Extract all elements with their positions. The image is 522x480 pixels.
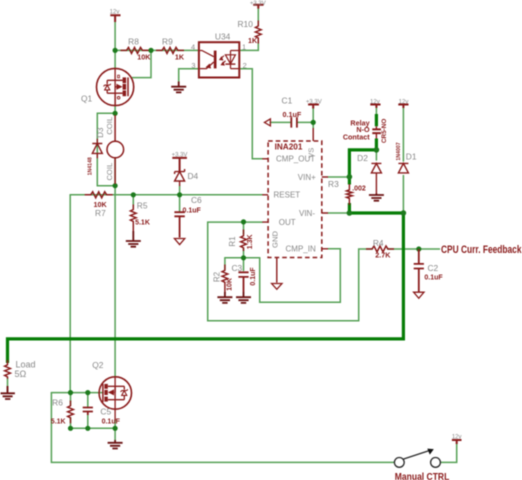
svg-text:COIL: COIL	[105, 163, 114, 181]
svg-text:12v: 12v	[370, 99, 380, 105]
svg-text:OUT: OUT	[279, 218, 296, 227]
svg-text:5.1K: 5.1K	[51, 419, 66, 426]
svg-text:R7: R7	[95, 208, 106, 218]
svg-text:12v: 12v	[110, 10, 120, 16]
svg-text:CR5-NO: CR5-NO	[381, 119, 388, 144]
svg-text:1K: 1K	[248, 36, 258, 45]
svg-text:R3: R3	[328, 179, 339, 189]
svg-text:Q1: Q1	[81, 93, 93, 103]
svg-text:12v: 12v	[452, 435, 462, 441]
svg-text:1K: 1K	[175, 52, 185, 61]
svg-text:0.1uF: 0.1uF	[183, 207, 202, 214]
svg-text:1N4007: 1N4007	[396, 142, 402, 160]
svg-text:10K: 10K	[137, 52, 151, 61]
svg-text:4: 4	[191, 43, 195, 52]
svg-text:R9: R9	[162, 37, 173, 47]
svg-text:5.1K: 5.1K	[135, 219, 150, 226]
svg-text:R1: R1	[228, 236, 237, 247]
svg-text:D3: D3	[96, 127, 105, 138]
svg-text:U34: U34	[215, 32, 231, 42]
svg-text:RESET: RESET	[274, 190, 301, 199]
svg-text:D1: D1	[406, 152, 417, 162]
svg-text:C2: C2	[428, 263, 439, 273]
svg-text:+3.3V: +3.3V	[250, 1, 266, 7]
svg-text:C3: C3	[232, 263, 243, 273]
svg-text:CPU Curr. Feedback: CPU Curr. Feedback	[441, 244, 522, 256]
svg-text:R2: R2	[212, 271, 221, 282]
svg-text:+3.3V: +3.3V	[172, 153, 188, 159]
svg-text:R5: R5	[137, 201, 148, 211]
svg-text:12v: 12v	[399, 99, 409, 105]
svg-text:R4: R4	[373, 238, 384, 248]
svg-text:GND: GND	[271, 231, 280, 248]
svg-text:D2: D2	[357, 153, 368, 163]
svg-text:1.3K: 1.3K	[247, 234, 254, 249]
svg-text:VIN+: VIN+	[298, 173, 316, 182]
svg-text:1: 1	[242, 43, 246, 52]
svg-text:2: 2	[243, 61, 247, 70]
svg-text:0.1uF: 0.1uF	[424, 274, 443, 281]
svg-text:Manual CTRL: Manual CTRL	[395, 472, 450, 480]
svg-text:10K: 10K	[94, 200, 108, 209]
svg-text:1N4148: 1N4148	[88, 157, 94, 175]
svg-text:INA201: INA201	[275, 142, 303, 151]
svg-text:VIN-: VIN-	[299, 209, 315, 218]
svg-text:10K: 10K	[227, 278, 234, 291]
svg-text:C5: C5	[100, 406, 111, 416]
svg-text:+3.3V: +3.3V	[306, 99, 322, 105]
svg-text:CMP_OUT: CMP_OUT	[276, 155, 315, 164]
svg-text:R10: R10	[238, 19, 254, 29]
svg-text:COIL: COIL	[105, 117, 114, 135]
svg-text:0.1uF: 0.1uF	[283, 110, 302, 119]
svg-text:Contact: Contact	[343, 132, 370, 141]
svg-text:C6: C6	[191, 195, 202, 205]
svg-text:R8: R8	[128, 37, 139, 47]
svg-text:5Ω: 5Ω	[15, 369, 27, 379]
svg-text:3: 3	[191, 61, 195, 70]
svg-text:Q2: Q2	[92, 360, 104, 370]
svg-text:0.1uF: 0.1uF	[250, 267, 257, 286]
svg-text:D4: D4	[188, 171, 199, 181]
svg-text:R6: R6	[52, 398, 63, 408]
svg-text:.002: .002	[352, 185, 366, 192]
svg-text:2.7K: 2.7K	[375, 251, 391, 260]
svg-text:0.1uF: 0.1uF	[102, 419, 121, 426]
svg-text:CMP_IN: CMP_IN	[286, 245, 316, 254]
svg-text:C1: C1	[282, 95, 293, 105]
